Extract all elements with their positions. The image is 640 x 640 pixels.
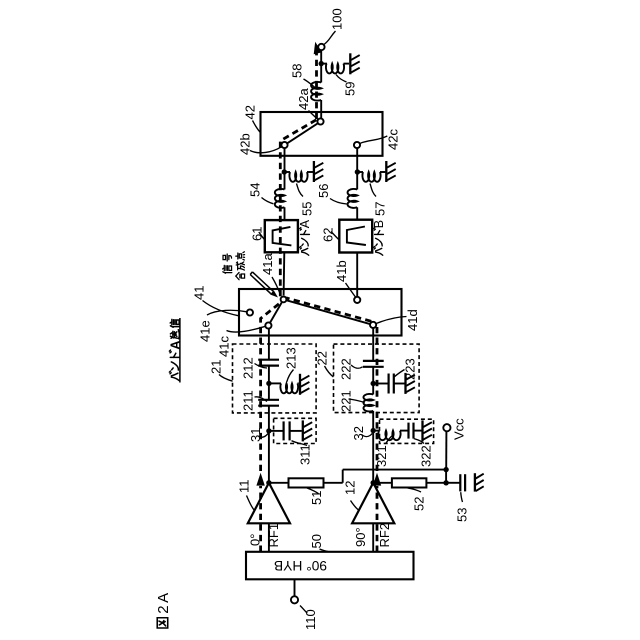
svg-text:41e: 41e (197, 320, 212, 342)
svg-text:51: 51 (309, 491, 324, 505)
svg-text:322: 322 (418, 445, 433, 467)
svg-text:100: 100 (329, 8, 344, 30)
svg-text:311: 311 (297, 444, 312, 465)
svg-text:59: 59 (342, 82, 357, 96)
svg-text:321: 321 (374, 445, 389, 467)
svg-text:41b: 41b (334, 260, 349, 282)
svg-text:222: 222 (338, 358, 353, 380)
svg-text:212: 212 (240, 357, 255, 379)
svg-text:A: A (298, 219, 312, 228)
svg-text:56: 56 (316, 184, 331, 198)
svg-text:42a: 42a (296, 88, 311, 110)
svg-text:41d: 41d (405, 309, 420, 331)
svg-text:50: 50 (309, 534, 324, 548)
svg-text:57: 57 (372, 202, 387, 216)
svg-text:21: 21 (208, 360, 223, 374)
svg-text:RF2: RF2 (377, 523, 392, 548)
svg-text:22: 22 (314, 351, 329, 365)
svg-text:211: 211 (240, 390, 255, 411)
svg-text:2A: 2A (155, 590, 172, 614)
svg-text:58: 58 (290, 64, 305, 78)
svg-text:0°: 0° (248, 534, 263, 546)
svg-text:42b: 42b (237, 133, 252, 155)
svg-text:Vcc: Vcc (451, 418, 466, 440)
svg-text:223: 223 (402, 358, 417, 380)
svg-text:42: 42 (242, 105, 257, 119)
svg-text:90°: 90° (353, 527, 368, 547)
svg-text:55: 55 (299, 202, 314, 216)
svg-text:110: 110 (303, 609, 318, 630)
svg-text:41a: 41a (260, 253, 275, 275)
svg-text:41c: 41c (216, 336, 231, 357)
svg-text:42c: 42c (386, 129, 401, 150)
svg-text:213: 213 (283, 347, 298, 369)
svg-text:41: 41 (191, 286, 206, 300)
svg-text:11: 11 (237, 480, 252, 494)
svg-text:12: 12 (342, 481, 357, 495)
svg-text:B: B (372, 220, 386, 228)
svg-text:61: 61 (249, 227, 264, 241)
svg-text:54: 54 (247, 183, 262, 197)
svg-text:52: 52 (411, 497, 426, 511)
svg-text:RF1: RF1 (266, 523, 281, 548)
svg-text:31: 31 (248, 428, 263, 442)
svg-text:90° HYB: 90° HYB (274, 558, 327, 573)
svg-text:32: 32 (351, 426, 366, 440)
svg-text:53: 53 (454, 508, 469, 522)
svg-text:62: 62 (320, 228, 335, 242)
svg-text:221: 221 (338, 390, 353, 412)
